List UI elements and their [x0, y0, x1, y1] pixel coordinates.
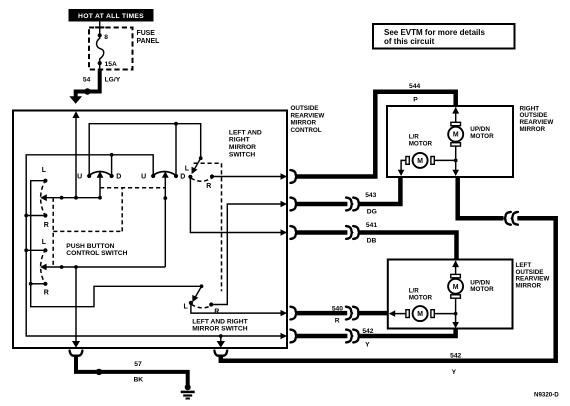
- svg-text:540: 540: [332, 305, 343, 312]
- svg-text:P: P: [413, 96, 418, 103]
- svg-text:L: L: [42, 239, 47, 246]
- svg-text:HOT AT ALL TIMES: HOT AT ALL TIMES: [78, 13, 144, 20]
- node splice dot on wire 54: [84, 88, 90, 94]
- switch S1 U/D rocker contacts: [77, 172, 121, 181]
- switch S4 left L/R rocker lower: [41, 239, 49, 296]
- svg-text:MIRROR: MIRROR: [229, 144, 256, 151]
- wire net A (U2,D1,R1,L2 to output 542): [26, 155, 287, 339]
- mechanical linkage push button: [53, 188, 165, 232]
- svg-text:LEFT AND: LEFT AND: [229, 129, 262, 136]
- svg-text:See EVTM for more details: See EVTM for more details: [384, 28, 485, 37]
- svg-text:DG: DG: [367, 209, 377, 216]
- svg-text:R: R: [214, 308, 219, 315]
- svg-text:PANEL: PANEL: [137, 38, 160, 45]
- wire 54 LG/Y from fuse: [76, 63, 121, 97]
- connector C1 output5: [290, 330, 296, 343]
- svg-text:PUSH BUTTON: PUSH BUTTON: [66, 243, 114, 250]
- svg-text:543: 543: [365, 192, 376, 199]
- svg-text:544: 544: [409, 83, 420, 90]
- wire output3 from S5-L: [190, 177, 287, 236]
- svg-text:FUSE: FUSE: [137, 30, 156, 37]
- wire right mirror common to 542 exit: [434, 146, 459, 176]
- connector C1 output2: [290, 198, 296, 211]
- svg-text:MOTOR: MOTOR: [470, 286, 494, 293]
- svg-text:R: R: [335, 318, 340, 325]
- switch assembly U1: left and right mirror switch outer box: [13, 111, 287, 349]
- svg-text:8: 8: [104, 34, 108, 41]
- wire entry arrow top of right mirror box: [452, 107, 459, 122]
- wire output4 from S6-L: [191, 303, 287, 316]
- wire entry arrow top of left mirror box: [452, 261, 459, 275]
- svg-text:R: R: [44, 290, 49, 297]
- motor M2 l/r right mirror: [406, 134, 434, 168]
- ground G1: [181, 384, 195, 398]
- svg-text:RIGHT: RIGHT: [229, 137, 251, 144]
- left outside rearview mirror box: [388, 260, 513, 329]
- label left and right mirror switch (bottom): [192, 318, 248, 332]
- wire net B (L1,R2 to lower pivot): [31, 181, 201, 307]
- mechanical linkage left switches: [52, 198, 54, 267]
- wire 540 entry arrow left mirror box: [389, 310, 406, 317]
- wire 57 BK ground: [76, 355, 188, 386]
- fuse panel box: [89, 28, 133, 70]
- svg-text:DB: DB: [367, 237, 377, 244]
- svg-text:CONTROL: CONTROL: [291, 127, 322, 134]
- svg-text:541: 541: [366, 222, 377, 229]
- label left and right mirror switch (top): [229, 129, 262, 158]
- svg-text:U: U: [141, 174, 146, 181]
- connector female half below box (542 leg): [214, 351, 227, 357]
- wire ground feed lower exit: [72, 267, 80, 348]
- svg-text:D: D: [180, 174, 185, 181]
- svg-text:Y: Y: [452, 369, 457, 376]
- svg-text:SWITCH: SWITCH: [229, 151, 256, 158]
- svg-text:L: L: [42, 167, 47, 174]
- svg-text:N9320-D: N9320-D: [534, 391, 559, 398]
- node HOT AT ALL TIMES header: [69, 9, 154, 22]
- svg-text:M: M: [453, 132, 459, 139]
- svg-text:U: U: [77, 174, 82, 181]
- wire D1 stub: [110, 153, 114, 176]
- fuse 15A element: [97, 35, 104, 63]
- wire 542 Y to left mirror: [296, 328, 455, 349]
- connector C1 output1: [290, 170, 296, 183]
- connector male half above switch box: [69, 96, 82, 104]
- wire wiper feed line upper: [40, 194, 102, 201]
- wire output2 from S6-R: [211, 201, 287, 305]
- svg-text:CONTROL SWITCH: CONTROL SWITCH: [66, 250, 127, 257]
- svg-text:MIRROR: MIRROR: [516, 283, 542, 290]
- wire 543 DG circuit: [296, 177, 400, 215]
- svg-text:542: 542: [450, 352, 461, 359]
- svg-text:L: L: [185, 165, 190, 172]
- wire U1-D2 net upper: [89, 124, 201, 176]
- motor M3 up/dn left mirror: [448, 274, 494, 298]
- svg-text:M: M: [417, 158, 423, 165]
- svg-text:M: M: [453, 284, 459, 291]
- switch S5 contacts L/R: [185, 165, 214, 190]
- svg-text:54: 54: [83, 76, 91, 83]
- connector C2 on 541: [346, 226, 359, 239]
- switch S3 left L/R rocker upper: [41, 167, 49, 229]
- svg-text:LG/Y: LG/Y: [105, 76, 121, 83]
- connector female half below box (ground leg): [70, 351, 83, 357]
- wire bottom exit to 542 run: [217, 334, 225, 348]
- wire D2 stub: [174, 122, 178, 176]
- svg-text:D: D: [116, 174, 121, 181]
- connector C1 output3: [290, 226, 296, 239]
- wire R2 stub: [29, 282, 46, 286]
- wire output1 to connector: [212, 173, 287, 179]
- switch S2 up/down wiper stem: [162, 171, 169, 267]
- wire 541 DB circuit: [296, 222, 456, 259]
- svg-text:BK: BK: [133, 377, 143, 384]
- connector C5 inline on 542 run: [505, 212, 518, 225]
- svg-text:OUTSIDE: OUTSIDE: [291, 105, 319, 112]
- fuse panel label: [137, 30, 160, 45]
- wire 542 Y bottom run to right mirror: [221, 177, 556, 375]
- label left outside rearview mirror: [516, 262, 550, 290]
- svg-text:MIRROR: MIRROR: [520, 126, 546, 133]
- svg-text:Y: Y: [365, 342, 370, 349]
- connector C4 on 542: [346, 330, 359, 343]
- svg-text:MIRROR SWITCH: MIRROR SWITCH: [192, 326, 248, 333]
- motor M1 up/dn right mirror: [448, 122, 494, 146]
- svg-text:of this circuit: of this circuit: [384, 37, 435, 46]
- svg-text:L: L: [184, 303, 189, 310]
- label push button control switch: [66, 243, 127, 257]
- mechanical linkage right switches: [194, 163, 222, 291]
- connector C3 on 540: [346, 307, 359, 320]
- motor M4 l/r left mirror: [406, 288, 434, 321]
- wire left mirror common to 542 exit: [434, 298, 459, 328]
- switch S6 contacts L/R: [184, 301, 220, 316]
- label right outside rearview mirror: [520, 105, 554, 133]
- wire 540 R circuit: [296, 305, 387, 324]
- svg-text:MOTOR: MOTOR: [470, 133, 494, 140]
- switch S5 right-mirror selector upper wiper: [192, 156, 203, 174]
- svg-text:R: R: [44, 222, 49, 229]
- node fuse top terminal 8: [98, 33, 109, 41]
- switch S6 left-mirror selector lower wiper: [192, 284, 203, 302]
- node fuse bottom terminal 15A: [98, 61, 117, 68]
- label outside rearview mirror control: [291, 105, 325, 134]
- svg-text:57: 57: [134, 361, 142, 368]
- svg-text:LEFT AND RIGHT: LEFT AND RIGHT: [192, 318, 248, 325]
- svg-text:MOTOR: MOTOR: [409, 294, 433, 301]
- svg-text:542: 542: [362, 328, 373, 335]
- right outside rearview mirror box: [387, 106, 513, 177]
- svg-text:M: M: [417, 311, 423, 318]
- wire wiper feed line lower: [40, 264, 165, 271]
- svg-text:MOTOR: MOTOR: [409, 140, 433, 147]
- svg-text:R: R: [206, 183, 211, 190]
- node splice on ground wire: [96, 369, 102, 375]
- wire R1 stub: [24, 214, 45, 218]
- switch S1 up/down wiper stem: [97, 171, 104, 198]
- wire 544 P circuit: [296, 83, 455, 177]
- connector C1 output4: [290, 307, 296, 320]
- switch S2 U/D rocker contacts: [141, 172, 185, 181]
- wire fuse top lead: [95, 22, 104, 36]
- connector C2 on 543: [346, 198, 359, 211]
- wire battery feed entry with connector arrow: [72, 111, 79, 197]
- wire L2 stub: [24, 248, 45, 252]
- wire right mirror l/r motor to 543 exit: [398, 160, 406, 176]
- svg-text:REARVIEW: REARVIEW: [291, 112, 325, 119]
- svg-text:15A: 15A: [105, 61, 117, 68]
- op-amp? no: See EVTM note box: [373, 24, 515, 49]
- svg-text:MIRROR: MIRROR: [291, 120, 317, 127]
